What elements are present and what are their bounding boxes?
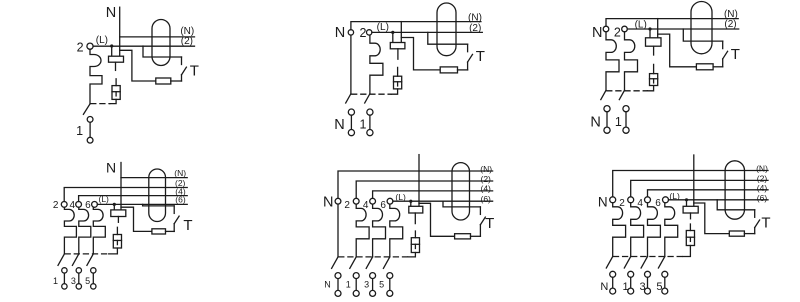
wire test branch from N (diagram 2) — [401, 38, 440, 70]
wire resistor to switch (diagram 1) — [171, 80, 182, 82]
svg-text:3: 3 — [364, 280, 369, 290]
wire module output (diagram 1) — [115, 62, 117, 70]
pole 1 outgoing (diagram 6) contact — [628, 271, 634, 277]
electronic module A1 (diagram 2) — [390, 43, 405, 49]
svg-text:(6): (6) — [175, 195, 186, 205]
overcurrent release pole 1 (diagram 6) — [631, 203, 644, 257]
terminal 4 (diagram 5) — [370, 198, 376, 204]
pole N outgoing (diagram 2) terminal — [348, 130, 354, 136]
terminal N (diagram 5) — [335, 198, 341, 204]
pole N outgoing (diagram 3) wire — [606, 112, 608, 127]
wire L tap to test switch (diagram 5) — [443, 201, 480, 207]
pole 1 outgoing (diagram 5) contact — [353, 273, 359, 279]
svg-text:1: 1 — [346, 280, 351, 290]
mechanical trip linkage (diagram 2) — [352, 93, 392, 95]
junction dot module-L (diagram 1) — [110, 44, 113, 47]
pole 1 outgoing (diagram 5) wire — [355, 279, 357, 291]
junction dot module-L (diagram 5) — [409, 200, 412, 203]
test button (diagram 2) blade — [468, 54, 473, 62]
svg-text:N: N — [324, 280, 331, 290]
trip solenoid Y1 (diagram 1) — [112, 86, 120, 100]
wire module L lead (diagram 6) — [686, 200, 688, 207]
trip solenoid Y1 (diagram 3) — [650, 74, 658, 86]
wire L line through toroid (diagram 3) — [627, 28, 738, 30]
wire pole N (diagram 5) — [337, 204, 339, 257]
contact blade pole 5 (diagram 5) — [383, 257, 389, 269]
junction dot module-L (diagram 3) — [648, 27, 651, 30]
test resistor R1 (diagram 2) — [440, 67, 457, 73]
mechanical trip linkage (diagram 3) — [607, 90, 648, 92]
wire module output (diagram 2) — [397, 49, 399, 59]
pole 3 outgoing (diagram 5) terminal — [370, 290, 376, 296]
current transformer core (diagram 5) — [452, 163, 470, 220]
test button (diagram 4) blade — [174, 216, 179, 224]
terminal 4 (diagram 4) — [76, 202, 82, 208]
overcurrent release pole 5 (diagram 5) — [390, 204, 403, 257]
junction dot module-L (diagram 2) — [391, 31, 394, 34]
pole N outgoing (diagram 6) terminal — [610, 288, 616, 294]
svg-text:(4): (4) — [481, 184, 492, 194]
wire module output (diagram 4) — [117, 217, 119, 223]
test button (diagram 2) fixed lead — [467, 44, 469, 52]
junction dot module-L (diagram 4) — [113, 203, 116, 206]
svg-text:2: 2 — [344, 200, 350, 211]
overcurrent release pole 3 (diagram 5) — [373, 204, 386, 257]
svg-text:2: 2 — [614, 26, 621, 40]
pole 1 outgoing (diagram 6) wire — [630, 277, 632, 288]
contact blade pole 1 (diagram 4) — [58, 254, 64, 266]
wire line 4 (diagram 6) — [648, 190, 769, 197]
wire N jog to (N) line (diagram 3) — [606, 19, 738, 27]
terminal N (diagram 2) — [348, 30, 353, 35]
wire module L lead (diagram 5) — [410, 201, 412, 206]
wire module N lead (diagram 3) — [657, 19, 659, 38]
wire N jog to (N) line (diagram 5) — [338, 171, 493, 198]
pole N outgoing (diagram 5) wire — [337, 279, 339, 291]
pole 3 outgoing (diagram 6) contact — [645, 271, 651, 277]
wire line 2 (diagram 5) — [356, 181, 492, 198]
current transformer core (diagram 1) — [152, 20, 170, 66]
terminal 2 (diagram 3) — [622, 26, 628, 32]
wire line 4 (diagram 5) — [373, 191, 493, 198]
test resistor R1 (diagram 4) — [152, 229, 166, 234]
svg-text:T: T — [190, 63, 199, 80]
svg-text:(L): (L) — [395, 192, 406, 202]
current transformer core (diagram 4) — [149, 169, 166, 221]
wire L tap to test switch (diagram 2) — [428, 32, 468, 44]
pole 1 outgoing (diagram 4) wire — [63, 273, 65, 284]
svg-text:2: 2 — [360, 26, 367, 40]
wire module L lead (diagram 1) — [111, 46, 113, 56]
pole L outgoing (diagram 2) wire — [369, 115, 371, 129]
pole 3 outgoing (diagram 4) terminal — [76, 284, 81, 289]
wire module output (diagram 5) — [414, 213, 416, 224]
pole L outgoing (diagram 1) wire — [89, 122, 91, 137]
overcurrent release F1 (diagram 2) — [370, 35, 383, 94]
wire resistor to switch (diagram 4) — [166, 230, 175, 232]
pole 3 outgoing (diagram 4) wire — [78, 273, 80, 284]
contact blade pole 1 (diagram 5) — [350, 257, 356, 269]
overcurrent release pole 5 (diagram 6) — [665, 203, 678, 257]
pole 5 outgoing (diagram 4) contact — [91, 268, 96, 273]
wire test branch from N (diagram 4) — [121, 207, 152, 231]
electronic module A1 (diagram 4) — [111, 210, 126, 217]
svg-text:N: N — [323, 195, 333, 211]
svg-text:(2): (2) — [469, 23, 481, 34]
svg-text:(6): (6) — [757, 193, 768, 203]
wire N vertical (diagram 5) — [418, 155, 420, 207]
pole 1 outgoing (diagram 5) terminal — [353, 290, 359, 296]
pole 5 outgoing (diagram 6) wire — [664, 277, 666, 288]
wire test branch from N (diagram 5) — [419, 203, 455, 236]
wire line 6 (diagram 5) — [393, 200, 493, 202]
contact blade pole 5 (diagram 4) — [87, 254, 93, 266]
overcurrent release pole N (diagram 3) — [606, 32, 619, 91]
svg-text:6: 6 — [380, 200, 386, 211]
contact blade pole N (diagram 2) — [346, 94, 351, 103]
terminal N (diagram 6) — [610, 197, 616, 203]
pole N outgoing (diagram 6) wire — [612, 277, 614, 288]
contact blade pole 1 (diagram 6) — [624, 257, 630, 269]
electronic module A1 (diagram 1) — [109, 56, 124, 62]
svg-text:3: 3 — [639, 281, 645, 293]
pole 3 outgoing (diagram 6) wire — [647, 277, 649, 288]
pole 1 outgoing (diagram 4) terminal — [62, 284, 67, 289]
svg-text:1: 1 — [76, 124, 83, 138]
trip solenoid Y1 (diagram 6) — [686, 231, 694, 246]
current transformer core (diagram 2) — [437, 3, 456, 56]
svg-text:N: N — [598, 194, 608, 209]
pole L outgoing (diagram 3) terminal — [623, 127, 629, 133]
test button (diagram 1) fixed lead — [181, 57, 183, 65]
svg-text:5: 5 — [85, 276, 90, 286]
test button (diagram 6) blade — [755, 220, 760, 228]
test button (diagram 4) lower lead — [173, 224, 175, 232]
test button (diagram 4) fixed lead — [173, 206, 175, 214]
wire resistor to switch (diagram 6) — [744, 233, 754, 235]
mechanical trip linkage (diagram 1) — [91, 103, 110, 105]
wire N jog to (N) line (diagram 2) — [351, 22, 481, 30]
svg-text:3: 3 — [71, 276, 76, 286]
svg-text:6: 6 — [655, 198, 661, 209]
current transformer core (diagram 6) — [725, 161, 744, 219]
svg-text:(L): (L) — [99, 194, 110, 204]
svg-text:N: N — [106, 5, 116, 21]
pole 3 outgoing (diagram 6) terminal — [645, 288, 651, 294]
wire module L lead (diagram 3) — [649, 29, 651, 38]
wire N vertical (diagram 1) — [119, 7, 121, 56]
pole L outgoing (diagram 3) contact — [623, 106, 629, 112]
wire module output (diagram 3) — [653, 46, 655, 55]
mechanical trip linkage (diagram 5) — [339, 256, 408, 258]
contact blade pole N (diagram 6) — [606, 257, 612, 269]
pole L outgoing (diagram 2) terminal — [367, 130, 373, 136]
contact blade pole 3 (diagram 4) — [72, 254, 78, 266]
terminal 4 (diagram 6) — [645, 197, 651, 203]
test resistor R1 (diagram 5) — [455, 234, 471, 239]
terminal 2 (diagram 4) — [61, 202, 67, 208]
pole 5 outgoing (diagram 5) wire — [389, 279, 391, 291]
contact blade pole L (diagram 2) — [365, 94, 370, 103]
svg-text:T: T — [476, 48, 485, 65]
svg-text:N: N — [334, 117, 344, 133]
test button (diagram 6) lower lead — [754, 228, 756, 234]
svg-text:(N): (N) — [174, 168, 186, 178]
svg-text:2: 2 — [53, 200, 59, 211]
overcurrent release pole N (diagram 6) — [613, 203, 626, 257]
pole N outgoing (diagram 3) contact — [604, 106, 610, 112]
junction dot module-L (diagram 6) — [685, 198, 688, 201]
wire test branch from N (diagram 6) — [694, 203, 730, 234]
pole 1 outgoing (diagram 6) terminal — [628, 288, 634, 294]
overcurrent release pole 1 (diagram 4) — [64, 207, 76, 254]
pole 5 outgoing (diagram 4) wire — [92, 273, 94, 284]
svg-text:N: N — [335, 25, 345, 41]
mechanical trip linkage (diagram 6) — [614, 256, 684, 258]
wire test branch from N (diagram 1) — [120, 50, 156, 81]
wire resistor to switch (diagram 2) — [458, 69, 468, 71]
pole N outgoing (diagram 3) terminal — [604, 127, 610, 133]
pole N outgoing (diagram 6) contact — [610, 271, 616, 277]
svg-text:1: 1 — [623, 281, 629, 293]
svg-text:N: N — [106, 159, 116, 175]
electronic module A1 (diagram 3) — [646, 38, 662, 46]
svg-text:(L): (L) — [96, 35, 108, 46]
trip solenoid Y1 (diagram 4) — [113, 235, 121, 249]
pole 3 outgoing (diagram 5) wire — [372, 279, 374, 291]
svg-text:(N): (N) — [468, 12, 482, 23]
svg-text:5: 5 — [379, 280, 384, 290]
wire L tap to test switch (diagram 6) — [717, 200, 755, 210]
svg-text:N: N — [592, 25, 602, 41]
pole L outgoing (diagram 1) terminal — [87, 137, 93, 143]
contact blade pole N (diagram 5) — [332, 257, 338, 269]
wire line 2 (diagram 4) — [64, 188, 187, 202]
test button (diagram 5) fixed lead — [479, 207, 481, 215]
overcurrent release F1 (diagram 1) — [90, 49, 102, 104]
wire line 6 (diagram 6) — [669, 199, 769, 201]
wire line 4 (diagram 4) — [79, 196, 188, 202]
test button (diagram 2) lower lead — [467, 62, 469, 70]
svg-text:(N): (N) — [756, 164, 768, 174]
wire pole N (diagram 2) — [350, 35, 352, 94]
pole N outgoing (diagram 2) contact — [348, 109, 354, 115]
wire L tap to test switch (diagram 3) — [683, 29, 722, 41]
mechanical trip linkage (diagram 4) — [65, 253, 109, 255]
wire resistor to switch (diagram 5) — [471, 235, 481, 237]
overcurrent release pole 3 (diagram 4) — [79, 207, 91, 254]
terminal 6 (diagram 6) — [663, 197, 669, 203]
contact blade pole N (diagram 3) — [601, 90, 606, 99]
test resistor R1 (diagram 3) — [696, 64, 713, 70]
svg-text:N: N — [600, 281, 608, 293]
overcurrent release pole 5 (diagram 4) — [93, 207, 105, 254]
wire (N) line through toroid (diagram 4) — [121, 177, 187, 179]
contact blade pole L (diagram 1) — [83, 104, 90, 114]
wire N vertical (diagram 6) — [693, 155, 695, 206]
wire module L lead (diagram 2) — [392, 32, 394, 42]
svg-text:(2): (2) — [481, 174, 492, 184]
wire (N) line through toroid (diagram 1) — [120, 36, 195, 38]
pole 5 outgoing (diagram 6) contact — [662, 271, 668, 277]
overcurrent release pole 1 (diagram 5) — [356, 204, 369, 257]
svg-text:T: T — [761, 214, 770, 231]
test button (diagram 5) blade — [480, 217, 485, 225]
test button (diagram 3) blade — [723, 51, 728, 59]
pole N outgoing (diagram 5) terminal — [335, 290, 341, 296]
pole N outgoing (diagram 5) contact — [335, 273, 341, 279]
electronic module A1 (diagram 5) — [409, 206, 423, 213]
contact blade pole 3 (diagram 6) — [641, 257, 647, 269]
wire resistor to switch (diagram 3) — [713, 66, 723, 68]
contact blade pole L (diagram 3) — [619, 90, 624, 99]
terminal 6 (diagram 5) — [387, 198, 393, 204]
current transformer core (diagram 3) — [691, 2, 712, 54]
test button (diagram 1) blade — [182, 67, 187, 75]
pole 1 outgoing (diagram 4) contact — [62, 268, 67, 273]
wire N vertical (diagram 4) — [120, 163, 122, 210]
svg-text:(6): (6) — [481, 194, 492, 204]
svg-text:(2): (2) — [181, 36, 193, 47]
wire L line through toroid (diagram 1) — [93, 45, 194, 47]
pole 3 outgoing (diagram 5) contact — [370, 273, 376, 279]
pole 5 outgoing (diagram 4) terminal — [91, 284, 96, 289]
svg-text:1: 1 — [615, 115, 622, 129]
overcurrent release pole 3 (diagram 6) — [648, 203, 661, 257]
svg-text:(4): (4) — [757, 183, 768, 193]
overcurrent release pole L (diagram 3) — [625, 32, 638, 91]
trip solenoid Y1 (diagram 5) — [411, 238, 419, 253]
pole N outgoing (diagram 2) wire — [350, 115, 352, 129]
terminal 2 (diagram 5) — [353, 198, 359, 204]
test resistor R1 (diagram 6) — [729, 231, 744, 236]
electronic module A1 (diagram 6) — [683, 206, 698, 213]
wire line N (diagram 6) — [613, 171, 768, 197]
pole 3 outgoing (diagram 4) contact — [76, 268, 81, 273]
wire line 2 (diagram 6) — [631, 180, 768, 196]
test button (diagram 1) lower lead — [181, 75, 183, 81]
test button (diagram 5) lower lead — [479, 225, 481, 237]
svg-text:N: N — [590, 115, 600, 131]
terminal 6 (diagram 4) — [92, 202, 98, 208]
svg-text:(L): (L) — [377, 22, 389, 33]
wire L tap to test switch (diagram 1) — [143, 46, 182, 57]
wire module N lead (diagram 2) — [400, 22, 402, 43]
svg-text:T: T — [731, 46, 740, 63]
pole L outgoing (diagram 2) contact — [367, 109, 373, 115]
wire module output (diagram 6) — [690, 213, 692, 219]
svg-text:5: 5 — [656, 281, 662, 293]
wire line 6 (diagram 4) — [97, 203, 187, 205]
trip solenoid Y1 (diagram 2) — [394, 76, 402, 89]
pole 5 outgoing (diagram 5) contact — [387, 273, 393, 279]
svg-text:1: 1 — [53, 276, 58, 286]
wire L tap to test switch (diagram 4) — [143, 204, 175, 206]
pole L outgoing (diagram 1) contact — [87, 117, 93, 123]
test button (diagram 3) lower lead — [722, 59, 724, 67]
svg-text:(2): (2) — [724, 19, 736, 30]
wire test branch from N (diagram 3) — [658, 34, 697, 67]
terminal 2 (diagram 6) — [628, 197, 634, 203]
test button (diagram 6) fixed lead — [754, 210, 756, 218]
contact blade pole 3 (diagram 5) — [366, 257, 372, 269]
test resistor R1 (diagram 1) — [156, 78, 171, 84]
wire module L lead (diagram 4) — [113, 204, 115, 210]
svg-text:2: 2 — [77, 41, 84, 55]
terminal 2 (diagram 1) — [87, 43, 93, 49]
svg-text:T: T — [183, 217, 192, 234]
pole 5 outgoing (diagram 5) terminal — [387, 290, 393, 296]
svg-text:(N): (N) — [480, 164, 492, 174]
terminal N (diagram 3) — [603, 26, 609, 32]
test button (diagram 3) fixed lead — [722, 41, 724, 49]
pole L outgoing (diagram 3) wire — [625, 112, 627, 127]
svg-text:1: 1 — [360, 117, 367, 131]
wire L line through toroid (diagram 2) — [372, 31, 482, 33]
svg-text:T: T — [485, 215, 494, 232]
contact blade pole 5 (diagram 6) — [658, 257, 664, 269]
terminal 2 (diagram 2) — [367, 30, 372, 35]
pole 5 outgoing (diagram 6) terminal — [662, 288, 668, 294]
